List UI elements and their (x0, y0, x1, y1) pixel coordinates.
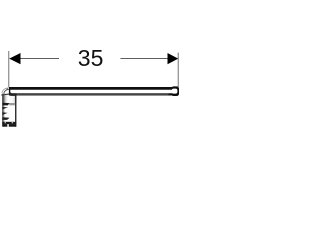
cylinder left edge (2, 94, 3, 127)
extension line left (8, 51, 10, 87)
cylinder upper section shading (2, 93, 16, 103)
elbow bend inner arc (4, 89, 9, 93)
cylinder top edge (1, 93, 11, 95)
rod tip cap (173, 86, 180, 96)
dimension line right segment (120, 58, 168, 60)
bottom blob left (2, 124, 7, 127)
hatch wedge 2 (2, 107, 8, 110)
lever rod white core (10, 90, 177, 94)
hatch band 4 (2, 117, 9, 120)
dimension line left segment (20, 58, 59, 60)
hatch wedge 3 (2, 112, 7, 115)
svg-text:35: 35 (78, 45, 104, 71)
cylinder top right corner (9, 93, 11, 95)
extension line right (177, 53, 179, 87)
elbow notch (6, 88, 8, 89)
lever rod outer (9, 87, 179, 96)
hatch band 1 (2, 103, 9, 106)
rod bottom shade line (17, 93, 169, 95)
bottom blob right (9, 124, 16, 127)
rod junction lower dark (10, 93, 16, 96)
bottom collar band (2, 122, 16, 124)
cylinder right edge (15, 93, 16, 127)
elbow bend outer arc (2, 88, 9, 93)
cylinder body (2, 93, 16, 126)
left arrowhead (9, 53, 20, 64)
right arrowhead (168, 53, 179, 64)
hatch band 1 gray tail (9, 103, 15, 105)
